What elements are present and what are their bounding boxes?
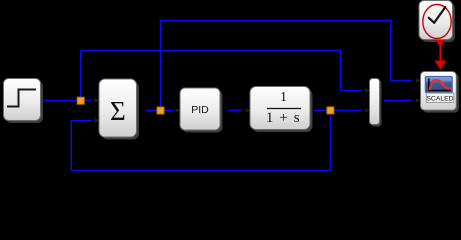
wire error branch up and across to scope input 1 [160, 21, 412, 111]
arrowhead at mux input 2 [365, 108, 370, 112]
link split port S3 [327, 107, 334, 114]
link split port S1 [77, 97, 84, 104]
svg-text:1 + s: 1 + s [266, 110, 301, 126]
link split port S2 [157, 107, 164, 114]
svg-text:PID: PID [191, 104, 209, 116]
arrowhead at scope input 1 [416, 78, 421, 82]
wire sum output to PID [146, 109, 174, 111]
wire plant output to mux input 2 [314, 109, 362, 111]
svg-text:SCALED: SCALED [426, 95, 453, 102]
wire feedback from plant output split down and back to sum input 2 [71, 110, 330, 170]
plant transfer function block [250, 87, 313, 133]
PID block [180, 88, 223, 133]
arrowhead at PID input [176, 108, 181, 112]
svg-text:Σ: Σ [110, 96, 126, 126]
svg-text:1: 1 [280, 90, 287, 105]
clock block [419, 1, 455, 43]
arrowhead at mux input 1 [365, 88, 370, 92]
arrowhead at plant input [246, 108, 251, 112]
arrowhead at sum input 2 [95, 118, 100, 122]
wire mux output to scope input 2 [384, 99, 412, 101]
wire reference branch up and across to mux input 1 [81, 51, 363, 98]
red event link from clock to scope [435, 40, 447, 70]
arrowhead at sum input 1 [95, 98, 100, 102]
scope block [421, 72, 459, 113]
summation block [99, 79, 139, 140]
step source block [4, 79, 44, 124]
wire PID to plant [228, 109, 242, 111]
arrowhead at scope input 2 [416, 98, 421, 102]
wire step output to sum [44, 99, 92, 101]
mux bar block [370, 79, 382, 127]
